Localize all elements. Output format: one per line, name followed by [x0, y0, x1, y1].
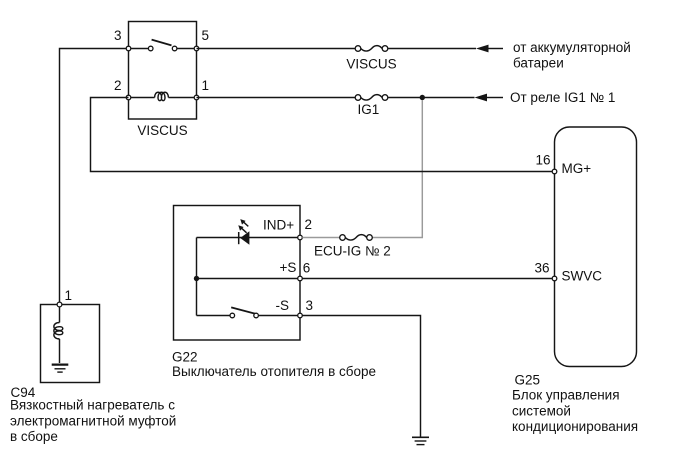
relay switch blade	[152, 40, 172, 46]
fuse IG1	[355, 95, 388, 101]
arrow from battery	[476, 45, 503, 53]
wire LED row	[197, 237, 298, 239]
LED D1	[238, 219, 249, 245]
fuse VISCUS	[355, 46, 388, 52]
relay switch contact left	[148, 46, 153, 51]
C94 coil	[54, 323, 63, 339]
wire junction down to ECU-IG fuse (gray)	[372, 100, 422, 237]
G22 switch contact left	[230, 313, 235, 318]
wire pin1 to fuse IG1	[197, 97, 356, 99]
ground bottom center	[412, 437, 429, 444]
G22 inner vertical wire	[196, 238, 198, 316]
arrow from relay IG1	[475, 94, 504, 102]
svg-text:батареи: батареи	[513, 55, 564, 70]
relay switch stub right	[177, 48, 197, 50]
C94 inner wire bottom	[59, 339, 61, 363]
svg-text:G25: G25	[515, 372, 541, 387]
wire pin2 loop to MG+	[91, 98, 553, 172]
svg-text:G22: G22	[172, 349, 198, 364]
node junction G22 inner	[194, 276, 199, 281]
heater switch box G22	[174, 206, 301, 341]
wire G22 pin2 to ECU-IG fuse (gray)	[302, 237, 339, 239]
svg-text:IND+: IND+	[263, 218, 294, 233]
relay switch stub left	[129, 48, 149, 50]
svg-text:6: 6	[303, 260, 311, 275]
relay coil L	[155, 92, 169, 100]
C94 terminal 1	[57, 302, 62, 307]
C94 inner wire top	[59, 307, 61, 323]
wire pin3 to ground	[302, 316, 420, 437]
wire +S row	[197, 278, 298, 280]
svg-text:VISCUS: VISCUS	[346, 56, 396, 71]
svg-text:36: 36	[534, 261, 549, 276]
svg-text:3: 3	[114, 28, 122, 43]
svg-text:MG+: MG+	[562, 161, 592, 176]
node junction IG1	[420, 95, 425, 100]
G22 switch contact right	[254, 313, 259, 318]
relay terminal 3	[126, 46, 131, 51]
svg-text:Блок управления: Блок управления	[512, 388, 620, 403]
svg-text:16: 16	[535, 153, 550, 168]
svg-text:в сборе: в сборе	[10, 429, 58, 444]
svg-text:2: 2	[114, 78, 122, 93]
wire switch to terminal 3	[258, 315, 297, 317]
svg-text:Вязкостный нагреватель с: Вязкостный нагреватель с	[10, 398, 175, 413]
G22 terminal 2	[298, 235, 303, 240]
svg-text:-S: -S	[276, 298, 290, 313]
G25 terminal 16	[552, 169, 557, 174]
relay terminal 2	[126, 95, 131, 100]
wire fuse VISCUS to arrow	[388, 48, 476, 50]
svg-text:SWVC: SWVC	[562, 268, 603, 283]
svg-text:системой: системой	[512, 403, 571, 418]
svg-text:ECU-IG № 2: ECU-IG № 2	[314, 243, 391, 258]
svg-text:1: 1	[202, 78, 210, 93]
relay switch contact right	[172, 46, 177, 51]
G22 terminal 6	[298, 276, 303, 281]
wire -S row stub	[197, 315, 231, 317]
svg-text:IG1: IG1	[358, 102, 380, 117]
wire pin6 to SWVC	[302, 278, 552, 280]
ground inside C94	[52, 365, 69, 373]
svg-text:от аккумуляторной: от аккумуляторной	[513, 40, 631, 55]
svg-text:3: 3	[306, 298, 314, 313]
svg-text:5: 5	[202, 28, 210, 43]
svg-text:+S: +S	[280, 260, 297, 275]
relay VISCUS box	[129, 22, 197, 120]
svg-text:VISCUS: VISCUS	[137, 123, 187, 138]
G22 switch blade	[231, 307, 255, 313]
relay coil stub right	[168, 97, 196, 99]
viscous heater box C94	[41, 305, 100, 383]
wire pin5 to fuse VISCUS	[197, 48, 356, 50]
wire fuse IG1 to arrow	[388, 97, 475, 99]
G25 terminal 36	[552, 276, 557, 281]
relay coil stub left	[129, 97, 155, 99]
svg-text:2: 2	[305, 217, 313, 232]
relay terminal 1	[194, 95, 199, 100]
svg-text:электромагнитной муфтой: электромагнитной муфтой	[10, 414, 176, 429]
svg-text:1: 1	[65, 288, 73, 303]
svg-text:кондиционирования: кондиционирования	[512, 419, 638, 434]
svg-text:От реле IG1 № 1: От реле IG1 № 1	[510, 90, 615, 105]
wire pin3 to C94 pin1	[60, 49, 129, 303]
relay terminal 5	[194, 46, 199, 51]
G22 terminal 3	[298, 313, 303, 318]
ECU box G25	[555, 127, 637, 367]
svg-text:Выключатель отопителя в сборе: Выключатель отопителя в сборе	[172, 364, 376, 379]
fuse ECU-IG	[340, 235, 373, 241]
